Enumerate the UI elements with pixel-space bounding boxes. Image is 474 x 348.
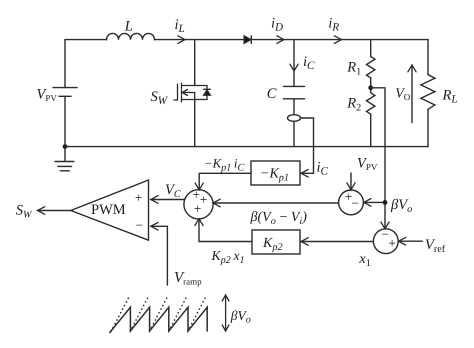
svg-text:L: L (124, 18, 133, 34)
waveform sawtooth dotted (111, 297, 206, 331)
svg-text:Kp2: Kp2 (262, 236, 283, 253)
svg-text:C: C (267, 86, 277, 102)
svg-text:PWM: PWM (91, 202, 126, 218)
current arrow iR (334, 36, 341, 44)
wire R1 to R2 (370, 78, 372, 93)
diode D1 (244, 36, 251, 44)
current arrow iD (277, 36, 284, 44)
arrow into junction2 top (381, 222, 389, 229)
svg-text:iC: iC (317, 160, 329, 178)
current sensor (288, 115, 301, 122)
svg-text:βVo: βVo (390, 197, 412, 215)
wire top rail left (65, 40, 107, 88)
wire RL bottom (427, 109, 429, 146)
gain block Kp2 (252, 230, 300, 254)
svg-text:iR: iR (328, 16, 339, 34)
svg-text:SW: SW (16, 203, 33, 221)
wire S3 to Kp2 (301, 241, 373, 243)
arrow VPV input (350, 173, 352, 190)
svg-text:VC: VC (165, 182, 181, 200)
transistor SW (174, 83, 210, 102)
svg-text:+: + (193, 187, 200, 202)
wire diode to right corner (251, 39, 428, 41)
wire Kp1 output to S1 (199, 173, 251, 190)
svg-text:Kp2 x1: Kp2 x1 (211, 248, 245, 266)
wire R1 top (370, 40, 372, 57)
wire VC (151, 199, 185, 201)
summing junction S3 (373, 229, 398, 254)
resistor RL (421, 75, 435, 110)
wire Vref (399, 240, 423, 242)
svg-text:iC: iC (303, 54, 315, 72)
wire beta(Vo-Vi) to S1 (213, 202, 339, 204)
svg-text:Vref: Vref (425, 237, 446, 255)
svg-text:iD: iD (271, 16, 283, 34)
svg-text:−: − (136, 218, 143, 233)
svg-text:+: + (388, 236, 395, 251)
arrow into Kp1 box (301, 170, 308, 178)
svg-text:VPV: VPV (37, 87, 58, 104)
wire capacitor to sensor (293, 99, 295, 115)
svg-text:x1: x1 (358, 251, 371, 269)
wire RL top (427, 40, 429, 75)
inductor L (107, 33, 155, 39)
wire sensor to bottom rail (293, 121, 295, 146)
wire SW output (38, 210, 71, 212)
measure arrow beta Vo (222, 295, 229, 331)
wire Kp2 output to S1 (199, 219, 252, 242)
wire divider tap to junction2 (371, 88, 385, 229)
wire switch source (194, 100, 196, 147)
svg-text:iL: iL (175, 17, 185, 35)
svg-text:−: − (351, 196, 358, 211)
summing junction S2 (339, 190, 364, 215)
svg-text:−Kp1: −Kp1 (260, 167, 289, 184)
summing junction S1 (184, 190, 213, 219)
svg-text:β(Vo − Vi): β(Vo − Vi) (250, 210, 308, 227)
ground (55, 147, 74, 171)
wire inductor to diode (155, 39, 245, 41)
wire capacitor branch top (293, 40, 295, 87)
capacitor C (283, 85, 304, 87)
node bottom-left (63, 144, 68, 149)
svg-text:R2: R2 (346, 96, 361, 114)
wire VPV bottom (64, 96, 66, 146)
svg-text:+: + (194, 201, 201, 216)
node divider (368, 85, 373, 90)
svg-text:+: + (135, 190, 142, 205)
wire R2 bottom (370, 114, 372, 146)
wire iC feedback (301, 118, 314, 173)
voltage source VPV (53, 87, 77, 89)
current arrow iL (178, 36, 185, 44)
svg-text:Vramp: Vramp (174, 270, 202, 287)
resistor R1 (367, 57, 375, 78)
gain block Kp1 (251, 161, 300, 185)
svg-text:SW: SW (151, 89, 169, 107)
wire ramp input (151, 226, 168, 285)
op-amp PWM comparator (71, 180, 149, 240)
svg-text:VO: VO (395, 86, 411, 102)
wire bottom rail (65, 146, 428, 148)
wire switch drain (194, 40, 196, 86)
waveform sawtooth solid (110, 307, 207, 332)
wire node to S2 (364, 201, 385, 203)
resistor R2 (367, 93, 375, 114)
svg-text:βVo: βVo (230, 308, 251, 326)
svg-text:−Kp1 iC: −Kp1 iC (204, 157, 244, 174)
current arrow iC (290, 64, 298, 71)
svg-text:RL: RL (442, 87, 458, 105)
arrow VO (411, 65, 413, 123)
svg-text:R1: R1 (346, 59, 361, 77)
node betaVo (383, 200, 388, 205)
svg-text:VPV: VPV (357, 156, 378, 173)
